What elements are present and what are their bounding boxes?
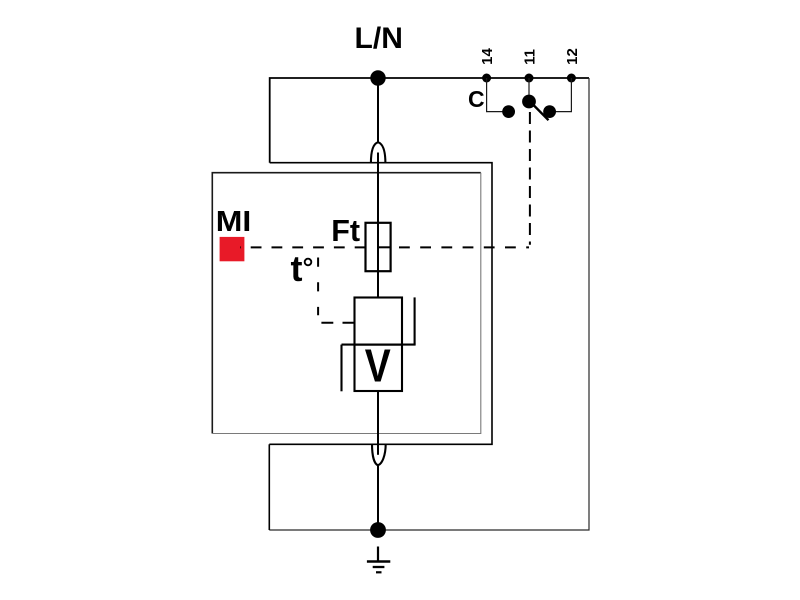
enclosure base box (open left side) [269, 163, 492, 445]
ground bar 3 [376, 571, 382, 573]
dashed link contact (vertical) [529, 112, 531, 245]
module box [212, 173, 481, 434]
disconnect gap line middle [342, 344, 416, 346]
svg-text:Ft: Ft [331, 214, 360, 248]
MI red indicator square [220, 237, 245, 261]
contact pole dot 12 [543, 105, 556, 118]
svg-text:t: t [291, 248, 303, 289]
dashed link continues right of Ft [399, 246, 529, 248]
varistor upper square [355, 298, 403, 345]
contact common dot 11 [522, 95, 536, 109]
svg-text:MI: MI [216, 206, 252, 238]
svg-text:L/N: L/N [355, 22, 403, 55]
remote contact wiring 12 [550, 78, 572, 112]
wire: bottom-left riser [268, 444, 270, 530]
contact lever [529, 101, 549, 121]
dashed link t-degree horizontal [321, 322, 354, 324]
plug contact arch bottom [372, 444, 386, 466]
ground bar 1 [367, 560, 390, 562]
Ft fuse middle stub [378, 246, 391, 248]
degree mark of t [305, 259, 312, 266]
dashed link t-degree vertical [317, 258, 319, 316]
svg-text:12: 12 [564, 48, 581, 65]
svg-text:11: 11 [521, 49, 538, 65]
disconnector Ft fuse body [366, 223, 391, 271]
svg-text:14: 14 [479, 48, 496, 65]
remote contact C : terminal dots on bus [482, 74, 491, 83]
node L/N dot [370, 70, 385, 85]
bracket left [340, 345, 342, 392]
wire: through fuse to varistor [377, 153, 379, 298]
remote contact wiring 11 [528, 78, 530, 101]
wire: right outer + bottom bus [269, 78, 589, 530]
wire: center conductor segments [377, 78, 379, 142]
dashed link MI-Ft-contact (horizontal) [240, 246, 366, 248]
ground bar 2 [373, 566, 385, 568]
plug contact arch top [371, 142, 386, 163]
remote contact wiring 14 [487, 78, 509, 112]
node ground-side dot [370, 522, 386, 538]
varistor lower square [355, 345, 403, 391]
wire: top bus L/N [270, 78, 589, 163]
svg-text:V: V [365, 340, 391, 392]
svg-text:C: C [468, 86, 485, 112]
contact pole dot 14 [502, 105, 515, 118]
ground stem [377, 547, 379, 562]
bracket right [414, 297, 416, 344]
